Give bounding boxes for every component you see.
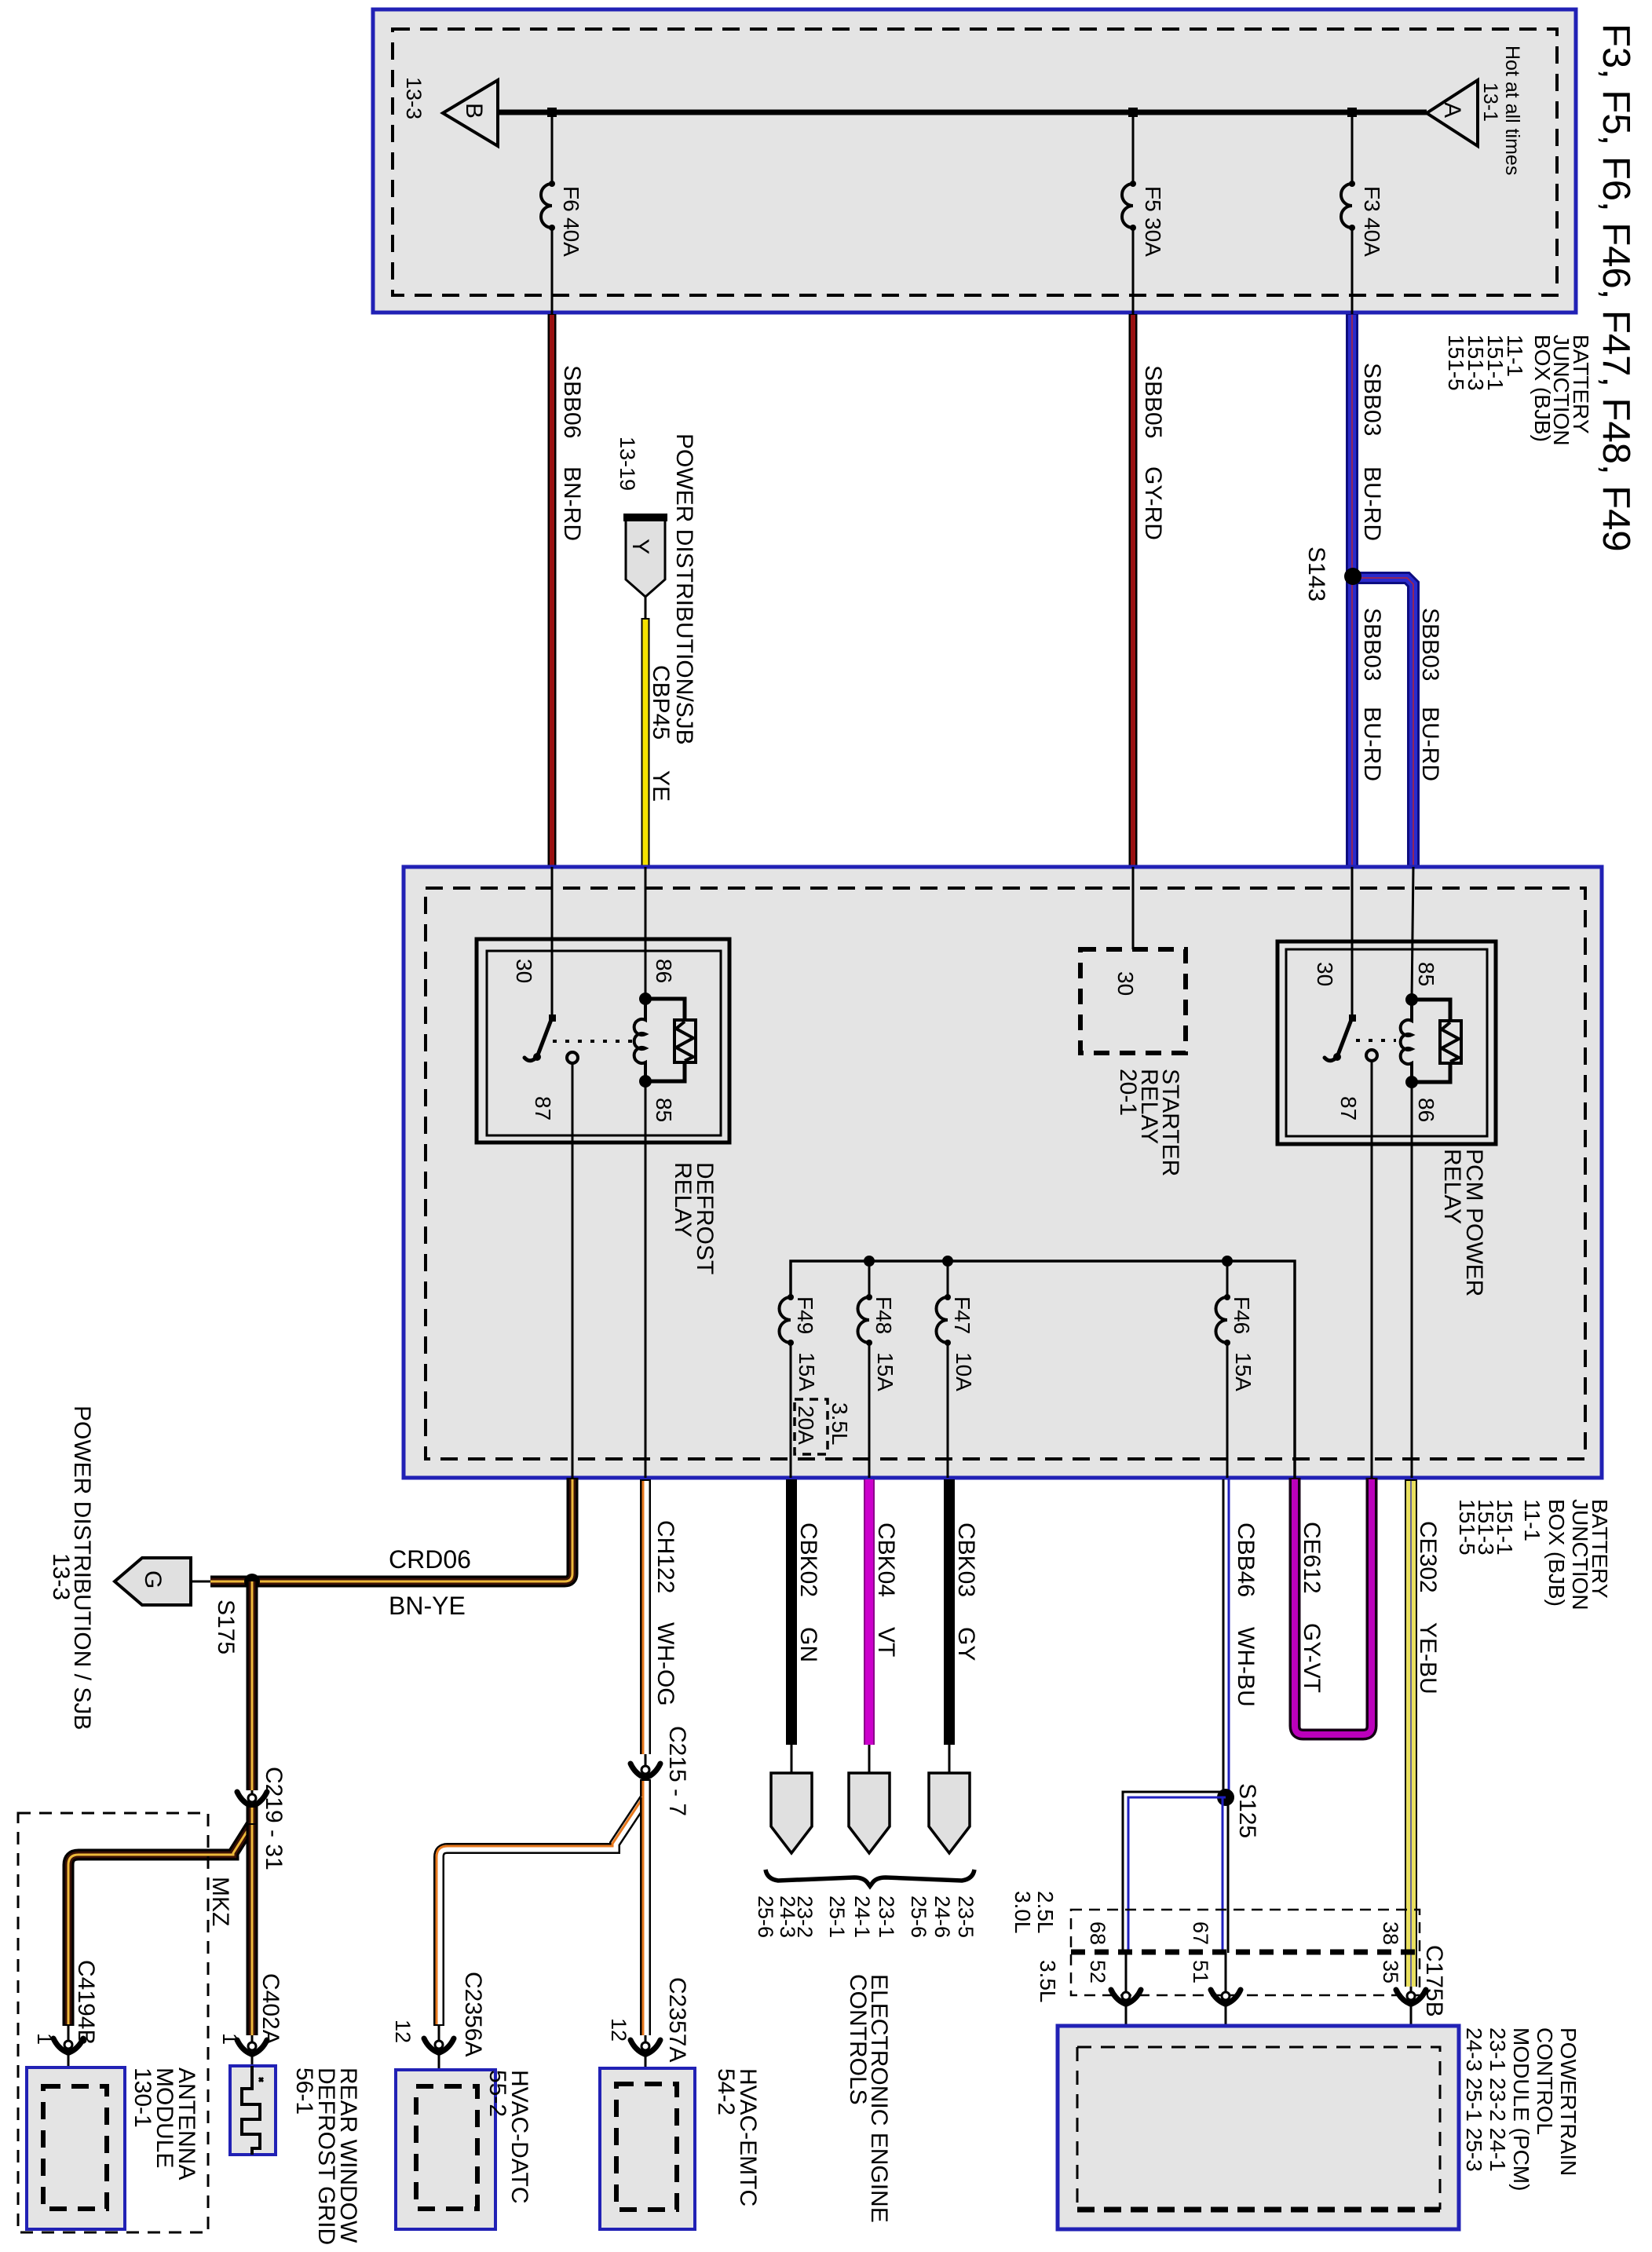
svg-text:RELAY: RELAY [1439,1149,1465,1224]
svg-text:24-6: 24-6 [930,1896,954,1938]
wire WH-BU main below S125 [1223,1797,1228,1998]
wire CBB46 WH-BU [1223,1479,1259,1797]
svg-text:30A: 30A [1141,218,1165,257]
svg-text:151-5: 151-5 [1455,1499,1479,1556]
svg-text:CBK04: CBK04 [873,1523,899,1597]
dashed MKZ variant region [18,1813,208,2232]
svg-text:C175B: C175B [1421,1945,1447,2017]
splice S125 [1217,1783,1260,1838]
svg-text:24-1: 24-1 [850,1896,874,1938]
svg-text:WH-OG: WH-OG [652,1622,678,1706]
fuse F49 15A [779,1294,819,1478]
svg-text:C2356A: C2356A [460,1972,486,2056]
svg-text:13-1: 13-1 [1479,82,1501,122]
wire CBP45 YE [645,597,647,867]
wire MKZ branch [68,1806,252,2026]
svg-text:51: 51 [1189,1960,1212,1983]
defrost relay pin 85 output wire [645,1081,647,1478]
svg-text:A: A [1439,102,1465,118]
wire CBK04 VT [869,1479,899,1773]
svg-text:11-1: 11-1 [1520,1499,1544,1541]
svg-text:SBB03: SBB03 [1359,608,1385,681]
svg-text:B: B [461,103,487,119]
svg-text:C4194B: C4194B [73,1960,99,2045]
svg-text:POWERTRAIN: POWERTRAIN [1556,2027,1581,2176]
svg-text:151-5: 151-5 [1444,335,1468,391]
svg-text:CONTROLS: CONTROLS [845,1974,871,2105]
defrost relay pin 87 contact [567,1052,578,1063]
svg-text:CE302: CE302 [1415,1521,1441,1593]
PCM relay switch arm [1325,1014,1356,1061]
pin group CBK04 [825,1896,898,1938]
fuse F47 10A [937,1261,977,1478]
fuse F6 40A [541,112,583,314]
svg-text:SBB03: SBB03 [1417,608,1443,681]
svg-text:YE-BU: YE-BU [1415,1622,1441,1694]
svg-text:24-3 25-1 25-3: 24-3 25-1 25-3 [1462,2027,1486,2172]
pin group CBK02 [754,1896,817,1938]
svg-text:F47: F47 [950,1296,974,1334]
wire BN-YE down to C402A [247,1823,258,2035]
svg-text:85: 85 [652,1098,676,1122]
svg-text:SBB05: SBB05 [1140,365,1166,438]
svg-text:1: 1 [218,2033,242,2045]
svg-text:3.0L: 3.0L [1011,1891,1035,1934]
defrost relay switch arm [524,1014,556,1061]
svg-text:24-3: 24-3 [776,1896,799,1938]
defrost relay coil [634,867,676,1122]
fuse feed line [791,1256,1295,1478]
svg-text:F6: F6 [559,186,583,212]
splice S143 [1303,547,1361,601]
wire SBB03 BU-RD (from F3) [1352,314,1385,867]
svg-text:C2357A: C2357A [664,1977,690,2062]
svg-text:30: 30 [1113,971,1138,996]
PCM relay pin 87 output wire [1371,1061,1373,1478]
label POWERTRAIN CONTROL MODULE (PCM) [1462,2027,1581,2191]
svg-text:C215 - 7: C215 - 7 [664,1726,690,1816]
svg-text:25-1: 25-1 [825,1896,849,1938]
PCM relay pin 86 output wire [1411,1082,1413,1478]
node: bus junction at F3 [1347,108,1357,117]
svg-text:30: 30 [1313,962,1337,986]
svg-text:87: 87 [531,1096,555,1121]
svg-text:2.5L: 2.5L [1033,1891,1058,1934]
svg-text:JUNCTION: JUNCTION [1568,1499,1592,1610]
svg-text:Y: Y [627,539,653,554]
fuse F49 alt 20A 3.5L note [794,1399,852,1454]
svg-text:CBK02: CBK02 [795,1523,821,1597]
svg-text:55-2: 55-2 [484,2070,510,2117]
splice S175 [213,1574,260,1654]
svg-text:86: 86 [1414,1098,1438,1122]
svg-text:20A: 20A [794,1406,818,1445]
svg-text:F49: F49 [793,1296,817,1334]
connector pentagon CBK04 [849,1773,890,1853]
svg-text:23-1: 23-1 [875,1896,898,1938]
wire BN-YE down from S175 [247,1581,258,1790]
connector pentagon CBK02 [771,1773,812,1853]
svg-text:YE: YE [648,770,674,802]
PCM relay resistor [1412,1000,1461,1082]
svg-text:15A: 15A [1231,1352,1255,1391]
connector triangle A [1427,80,1478,146]
antenna module box [27,2067,125,2229]
svg-text:CH122: CH122 [652,1520,678,1593]
wire WH-OG down to C2357A [643,1797,645,2035]
wire CE302 YE-BU [1411,1479,1441,1998]
svg-text:MODULE (PCM): MODULE (PCM) [1509,2027,1533,2191]
svg-text:30: 30 [512,959,536,983]
connector fork C175B pin 68/52 [1111,1990,1141,2004]
svg-text:CBK03: CBK03 [953,1523,979,1597]
svg-text:POWER DISTRIBUTION/SJB: POWER DISTRIBUTION/SJB [671,433,697,745]
svg-text:C402A: C402A [258,1973,283,2045]
hot at all times bus wire [498,110,1427,115]
connector fork C402A [218,1973,283,2079]
svg-text:35: 35 [1379,1960,1402,1983]
wire WH-BU branch left from S125 [1123,1792,1226,1998]
svg-text:MKZ: MKZ [207,1877,233,1926]
svg-text:CRD06: CRD06 [389,1545,471,1574]
svg-text:38: 38 [1379,1921,1402,1945]
fuse F48 15A [857,1261,897,1478]
PCM relay dotted link [1356,1039,1396,1042]
connector C175B row [1071,1910,1447,2017]
svg-text:BN-YE: BN-YE [389,1592,466,1620]
wire SBB03 BU-RD branch to PCM relay coil [1352,578,1443,867]
svg-text:S143: S143 [1303,547,1329,601]
fuse F5 30A [1122,112,1165,314]
svg-text:67: 67 [1189,1921,1212,1945]
HVAC-DATC box [396,2070,495,2229]
svg-text:BOX (BJB): BOX (BJB) [1530,335,1555,442]
connector fork C219-31 [237,1767,287,1870]
wire SBB06 BN-RD [552,314,585,867]
connector triangle B [443,80,498,146]
svg-text:WH-BU: WH-BU [1233,1627,1259,1707]
rear window defrost grid box [230,2066,276,2155]
connector fork C175B pin 67/51 [1211,1990,1241,2004]
svg-text:CBB46: CBB46 [1233,1523,1259,1597]
svg-text:F48: F48 [872,1296,896,1334]
svg-text:3.5L: 3.5L [1036,1960,1060,2003]
svg-text:25-6: 25-6 [907,1896,930,1938]
svg-text:23-1 23-2 24-1: 23-1 23-2 24-1 [1486,2027,1510,2172]
svg-text:40A: 40A [559,218,583,257]
svg-text:23-5: 23-5 [954,1896,978,1938]
HVAC-EMTC box [600,2068,695,2229]
connector fork C2356A [391,1972,486,2086]
pin group CBK03 [907,1896,978,1938]
fuse F46 15A [1215,1261,1255,1478]
starter relay box [1080,867,1186,1176]
svg-text:BU-RD: BU-RD [1359,466,1385,541]
svg-text:12: 12 [391,2020,415,2043]
svg-text:VT: VT [873,1627,899,1657]
svg-text:54-2: 54-2 [713,2068,739,2115]
svg-text:GY: GY [953,1627,979,1661]
svg-text:68: 68 [1086,1921,1109,1945]
wire CRD06 BN-YE [210,1478,572,1620]
connector G [115,1558,210,1605]
svg-text:86: 86 [652,959,676,983]
svg-text:GY-VT: GY-VT [1299,1623,1325,1693]
wire CBK02 GN [791,1479,821,1773]
svg-text:85: 85 [1414,962,1438,986]
svg-text:SBB06: SBB06 [559,365,585,438]
label block: BATTERY JUNCTION BOX (BJB) middle [1455,1499,1612,1610]
connector fork C2357A [607,1977,690,2084]
svg-text:G: G [140,1570,166,1588]
wire WH-OG branch to HVAC-DATC [437,1779,645,2026]
svg-text:15A: 15A [795,1352,819,1391]
fuse F3 40A [1341,112,1384,314]
svg-text:3.5L: 3.5L [828,1402,852,1446]
svg-text:15A: 15A [873,1352,897,1391]
svg-text:GN: GN [795,1627,821,1662]
svg-text:BN-RD: BN-RD [559,466,585,541]
svg-text:F5: F5 [1141,186,1165,212]
svg-text:25-6: 25-6 [754,1896,777,1938]
svg-text:BU-RD: BU-RD [1359,707,1385,781]
connector fork C4194B [33,1960,99,2086]
svg-text:130-1: 130-1 [130,2067,155,2128]
PCM relay coil [1401,867,1438,1122]
svg-text:S125: S125 [1234,1783,1260,1838]
svg-text:BOX (BJB): BOX (BJB) [1544,1499,1569,1607]
defrost relay box [477,939,729,1274]
svg-text:GY-RD: GY-RD [1140,466,1166,540]
svg-text:13-3: 13-3 [48,1553,74,1600]
svg-text:CE612: CE612 [1299,1522,1325,1594]
defrost relay resistor [645,999,696,1081]
defrost relay pin 87 output wire [572,1063,574,1478]
connector pentagon CBK03 [929,1773,970,1853]
svg-text:10A: 10A [952,1352,976,1391]
svg-text:S175: S175 [213,1599,239,1654]
brace electronic engine controls [766,1870,974,1886]
svg-text:Hot at all times: Hot at all times [1501,46,1523,175]
PCM relay pin 30 wire [1351,867,1354,1018]
defrost relay dotted link [553,1040,641,1043]
svg-text:RELAY: RELAY [670,1162,696,1238]
svg-text:56-1: 56-1 [291,2067,317,2115]
svg-text:52: 52 [1086,1960,1109,1983]
wire CE612 GY-VT [1295,1478,1372,1735]
svg-text:F3: F3 [1360,186,1384,212]
wire SBB05 GY-RD [1133,314,1166,867]
svg-text:F3, F5, F6, F46, F47, F48, F49: F3, F5, F6, F46, F47, F48, F49 [1595,24,1637,552]
PCM relay pin 87 contact [1366,1050,1377,1061]
wire CH122 WH-OG [643,1479,678,1765]
defrost relay pin 30 wire [551,867,554,1018]
svg-text:BU-RD: BU-RD [1417,707,1443,781]
svg-text:12: 12 [607,2018,630,2042]
node: bus junction at F5 [1128,108,1138,117]
svg-text:20-1: 20-1 [1115,1069,1141,1116]
battery junction box (BJB) top [373,9,1576,313]
connector Y (power distribution/SJB) [623,517,667,597]
node: bus junction at F6 [547,108,557,117]
svg-text:40A: 40A [1360,218,1384,257]
svg-text:1: 1 [33,2033,57,2045]
svg-text:13-19: 13-19 [616,437,639,491]
wire CBK03 GY [949,1479,979,1773]
svg-text:CBP45: CBP45 [648,665,674,740]
svg-text:CONTROL: CONTROL [1533,2027,1557,2135]
connector fork C175B pin 38/35 [1396,1990,1426,2004]
svg-text:87: 87 [1336,1096,1361,1121]
label block: BATTERY JUNCTION BOX (BJB) top [1444,335,1593,446]
svg-text:SBB03: SBB03 [1359,363,1385,436]
svg-text:C219 - 31: C219 - 31 [261,1767,287,1870]
powertrain control module (PCM) box [1058,2026,1459,2229]
connector fork C215-7 [630,1726,690,1816]
svg-text:F46: F46 [1230,1296,1254,1334]
PCM power relay box [1277,941,1496,1296]
battery junction box (BJB) middle [404,867,1602,1478]
svg-text:13-3: 13-3 [402,77,426,119]
